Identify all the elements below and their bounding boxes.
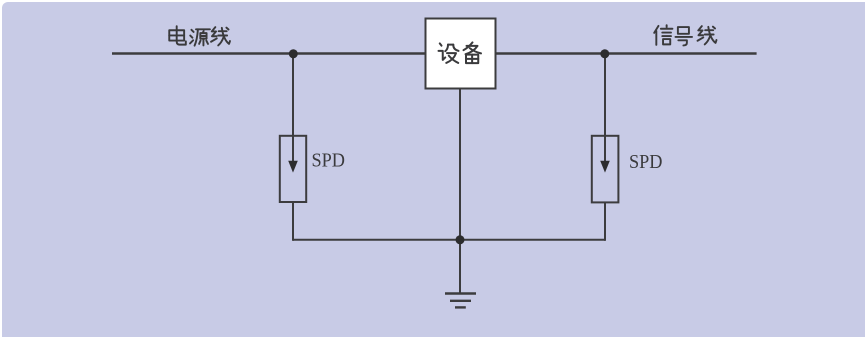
node: left junction dot [289, 49, 298, 58]
node: ground bus junction dot [456, 235, 465, 244]
wire: main horizontal line (power line to signal line) [112, 52, 757, 54]
SPD2 arrow [600, 161, 610, 173]
label 电源线 (power line) [169, 26, 230, 45]
SPD1 arrow [288, 161, 298, 173]
node: right junction dot [600, 49, 609, 58]
wire: right SPD bottom lead [604, 203, 606, 241]
label 设备 (device) inside box [439, 42, 482, 63]
wire: right SPD vertical drop (junction to SPD top) [604, 54, 606, 163]
wire: ground stem [459, 240, 461, 294]
ground symbol [445, 294, 476, 308]
wire: device vertical lead down to ground bus [459, 89, 461, 240]
svg-text:SPD: SPD [629, 151, 663, 173]
svg-text:SPD: SPD [312, 150, 346, 172]
wire: left SPD bottom lead [292, 202, 294, 241]
SPD1 box (left surge protector) [280, 136, 306, 202]
device box U1 [426, 19, 496, 89]
wire: ground bus horizontal [293, 239, 605, 241]
label 信号线 (signal line) [654, 25, 716, 45]
SPD2 box (right surge protector) [592, 136, 619, 203]
wire: left SPD vertical drop (junction to SPD top) [292, 54, 294, 163]
